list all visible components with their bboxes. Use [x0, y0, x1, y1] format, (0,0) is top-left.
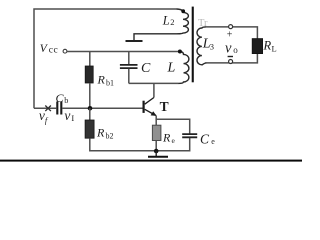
svg-text:I: I [71, 113, 74, 123]
wire emitter to Re [155, 119, 157, 125]
wire Rb2 branch [89, 108, 91, 120]
phase dot L [178, 50, 182, 54]
junction dot ground [154, 149, 159, 154]
svg-text:R: R [263, 38, 272, 52]
svg-text:3: 3 [210, 41, 214, 51]
capacitor Cb [57, 102, 61, 115]
resistor Re [152, 125, 161, 140]
transformer core [192, 7, 194, 83]
svg-text:C: C [56, 91, 65, 105]
wire Re to rail [155, 141, 157, 151]
wire Vcc rail [67, 51, 179, 53]
wire output bottom [205, 54, 257, 63]
transistor T base bar [143, 101, 145, 113]
transistor T emitter arrow [151, 112, 156, 116]
svg-text:2: 2 [170, 17, 174, 27]
svg-text:cc: cc [49, 45, 58, 55]
svg-text:R: R [97, 72, 106, 86]
svg-text:C: C [141, 61, 151, 76]
svg-text:e: e [211, 137, 215, 146]
capacitor Ce [182, 134, 197, 137]
wire capacitor C branch bottom [128, 69, 130, 84]
svg-text:v: v [64, 108, 70, 123]
svg-text:b2: b2 [106, 131, 114, 140]
wire tank bottom [129, 82, 179, 84]
terminal output top [229, 25, 233, 29]
wire feedback loop: top border + left border [34, 9, 177, 108]
svg-text:e: e [172, 136, 176, 145]
transistor T collector stroke [145, 98, 154, 105]
svg-text:L: L [272, 43, 277, 53]
svg-text:L: L [162, 13, 170, 27]
wire output top [205, 27, 257, 39]
svg-text:o: o [233, 45, 238, 55]
svg-text:b: b [64, 96, 68, 105]
svg-text:R: R [162, 131, 171, 145]
wire collector [153, 83, 155, 97]
ground (L2) [126, 40, 143, 42]
wire Rb1 to base [89, 83, 91, 108]
phase dot L2 [181, 9, 185, 13]
svg-text:C: C [200, 131, 210, 146]
wire emitter down and right [156, 116, 190, 134]
terminal output bottom [229, 60, 233, 64]
svg-text:R: R [96, 125, 105, 139]
wire capacitor C branch top [128, 52, 130, 65]
label minus [228, 56, 233, 57]
bottom rule [0, 160, 302, 162]
break cross x [45, 106, 51, 112]
wire Rb2 to ground rail [90, 138, 190, 151]
svg-text:+: + [227, 30, 233, 41]
inductor L [179, 52, 189, 84]
resistor RL [252, 39, 262, 54]
svg-text:b1: b1 [106, 78, 114, 87]
svg-text:V: V [40, 43, 49, 55]
svg-text:v: v [225, 40, 232, 56]
wire Rb1 branch [89, 52, 91, 67]
svg-text:L: L [167, 61, 176, 76]
resistor Rb2 [85, 120, 94, 138]
capacitor C [120, 65, 138, 68]
svg-text:T: T [160, 99, 169, 114]
ground (emitter) [155, 151, 157, 157]
svg-text:f: f [45, 115, 49, 125]
inductor L2 [134, 9, 188, 40]
inductor L3 [197, 27, 207, 65]
junction dot base [88, 106, 93, 111]
terminal Vcc [63, 49, 67, 53]
transistor T emitter stroke [145, 109, 156, 115]
resistor Rb1 [85, 66, 93, 83]
wire base line [34, 107, 143, 109]
